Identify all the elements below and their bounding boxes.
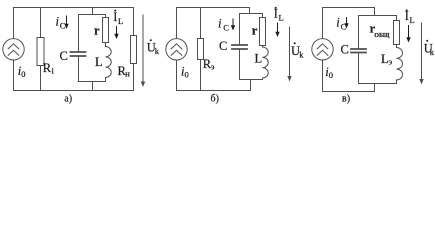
wire RH branch top a: [133, 8, 135, 36]
wire tank stub top a: [92, 8, 94, 15]
svg-text:k: k: [430, 47, 435, 57]
label rOBSH text: [370, 22, 390, 40]
voltage arrow Uk (b): [287, 27, 291, 82]
label iC (v): [336, 16, 348, 32]
svg-text:R: R: [43, 61, 52, 75]
wire r-L link a: [105, 43, 107, 47]
wire r branch top b: [262, 14, 264, 18]
current source i0 (a): [3, 39, 24, 60]
wire L branch bottom a: [105, 78, 107, 82]
svg-text:0: 0: [185, 70, 189, 80]
svg-text:L: L: [118, 16, 123, 26]
wire tank inner bottom v: [359, 83, 397, 85]
resistor Ri: [37, 38, 44, 66]
svg-text:э: э: [389, 57, 393, 67]
wire RH branch bottom a: [133, 64, 135, 91]
svg-text:L: L: [410, 15, 415, 25]
wire C branch upper a: [78, 15, 80, 52]
capacitor C (v): [351, 49, 366, 53]
svg-text:I: I: [113, 10, 117, 24]
wire left lower v: [322, 60, 324, 91]
svg-text:L: L: [279, 13, 284, 23]
wire bottom rail b: [177, 90, 251, 92]
wire left lower a: [13, 60, 15, 90]
wire RE branch top b: [200, 8, 202, 39]
svg-text:C: C: [341, 43, 349, 57]
wire C branch upper b: [239, 14, 241, 45]
label IL (a): [113, 10, 123, 39]
label IL (v): [405, 9, 415, 42]
resistor r (a): [103, 18, 109, 43]
wire tank inner bottom a: [78, 81, 106, 83]
wire C branch lower b: [239, 50, 241, 80]
wire Ri branch bottom a: [40, 66, 42, 91]
svg-text:ОБЩ: ОБЩ: [374, 33, 390, 39]
inductor LE: [397, 48, 403, 80]
svg-text:а): а): [64, 94, 72, 105]
label i0 (v): [325, 65, 333, 80]
label Ri: [43, 61, 55, 76]
svg-text:r: r: [94, 24, 100, 38]
current source i0 (v): [312, 39, 333, 60]
wire tank stub top b: [249, 8, 251, 14]
resistor RE: [198, 39, 204, 60]
wire left upper v: [322, 8, 324, 39]
wire L branch bottom b: [262, 78, 264, 80]
label LE: [381, 52, 393, 67]
wire left upper a: [13, 8, 15, 39]
svg-text:C: C: [60, 21, 66, 31]
resistor RH: [131, 36, 137, 64]
wire C branch lower v: [358, 54, 360, 84]
label RE: [203, 57, 215, 72]
svg-text:L: L: [95, 55, 103, 69]
wire tank stub bottom v: [374, 84, 376, 92]
wire bottom rail v: [323, 91, 375, 93]
inductor L (b): [263, 47, 269, 78]
wire tank inner bottom b: [240, 79, 263, 81]
wire tank stub bottom b: [250, 80, 252, 91]
label IL (b): [274, 7, 284, 37]
label iC (a): [56, 15, 69, 31]
svg-text:k: k: [299, 49, 304, 59]
wire top rail a: [14, 7, 134, 9]
wire tank inner top b: [240, 13, 263, 15]
wire tank stub bottom a: [92, 82, 94, 91]
svg-text:б): б): [211, 94, 219, 105]
current source i0 (b): [166, 39, 187, 60]
svg-text:н: н: [125, 69, 130, 79]
capacitor C (b): [232, 45, 247, 49]
voltage arrow Uk (a): [141, 15, 145, 87]
label iC (b): [218, 17, 235, 33]
wire C branch upper v: [358, 16, 360, 49]
label i0 (b): [181, 65, 189, 80]
wire Ri branch top a: [40, 8, 42, 38]
svg-text:C: C: [219, 39, 227, 53]
wire top rail b: [177, 7, 250, 9]
label Uk (b): [291, 42, 304, 59]
label RH: [118, 64, 131, 79]
svg-text:C: C: [223, 23, 229, 33]
resistor r (b): [260, 18, 266, 46]
label i0 (a): [18, 64, 26, 79]
svg-text:k: k: [155, 46, 160, 56]
wire r-L link b: [262, 46, 264, 48]
svg-text:в): в): [342, 94, 350, 105]
inductor L (a): [106, 47, 112, 78]
wire left lower b: [176, 60, 178, 90]
wire r branch top a: [105, 15, 107, 18]
wire tank stub top v: [374, 8, 376, 16]
voltage arrow Uk (v): [419, 23, 423, 85]
capacitor C (a): [71, 52, 86, 56]
wire top rail v: [323, 7, 375, 9]
wire r-L link v: [396, 45, 398, 48]
label Uk (v): [424, 40, 435, 57]
svg-text:C: C: [60, 49, 68, 63]
wire L branch bottom v: [396, 80, 398, 84]
wire C branch lower a: [78, 57, 80, 82]
wire bottom rail a: [14, 90, 134, 92]
resistor rOBSH: [394, 21, 400, 45]
wire tank inner top a: [79, 14, 106, 16]
svg-text:L: L: [255, 52, 263, 66]
svg-text:э: э: [211, 62, 215, 72]
wire left upper b: [176, 8, 178, 39]
svg-text:0: 0: [329, 70, 333, 80]
svg-text:r: r: [252, 24, 258, 38]
wire tank inner top v: [359, 15, 397, 17]
svg-text:L: L: [381, 52, 389, 66]
wire RE branch bottom b: [200, 60, 202, 91]
wire r branch top v: [396, 16, 398, 21]
svg-text:0: 0: [21, 69, 25, 79]
svg-text:i: i: [218, 17, 222, 31]
label Uk (a): [147, 39, 160, 56]
